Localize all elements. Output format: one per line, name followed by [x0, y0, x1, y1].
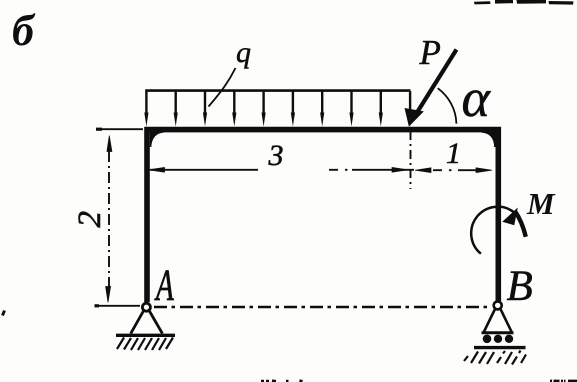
distributed load arrows: heads	[144, 113, 412, 127]
stray marks bottom centre	[261, 381, 303, 382]
dimension 3 line left segment with left arrow	[150, 169, 258, 171]
fillet top-left interior corner	[150, 131, 164, 147]
support A pin circle	[142, 303, 150, 311]
svg-text:α: α	[462, 68, 492, 128]
moment M arrowhead barb	[504, 209, 517, 224]
dimension 1 left arrow	[415, 168, 431, 173]
distributed load q: top line	[145, 89, 410, 92]
dimension 3 right dash-dot segment with right arrow	[329, 169, 414, 171]
support B pin circle	[494, 301, 502, 309]
dimension 2 top arrow	[107, 136, 112, 152]
support A triangle	[131, 310, 163, 334]
dimension 1 right arrow	[476, 168, 492, 173]
support A hatching	[117, 338, 173, 351]
force P arrow	[415, 50, 457, 117]
leader line from q	[209, 68, 236, 107]
moment M arc thick end tail	[515, 211, 526, 237]
support A ground line	[116, 334, 175, 337]
fillet top-right interior corner	[481, 131, 496, 147]
svg-text:б: б	[12, 6, 36, 55]
extension line bottom-left (support level)	[95, 305, 141, 307]
vertical dash-dot line at load end	[410, 131, 412, 189]
support B base line	[482, 331, 514, 334]
dash-dot centre line A to B	[154, 306, 490, 308]
moment M arc	[471, 207, 514, 254]
svg-text:M: M	[526, 186, 556, 221]
distributed load arrows: stems	[146, 91, 410, 115]
support B triangle	[484, 308, 512, 332]
stray mark bottom right	[550, 380, 577, 382]
scan artifact top-right streak	[474, 0, 574, 5]
svg-text:B: B	[507, 263, 533, 310]
frame (beam + two columns)	[147, 130, 498, 302]
svg-text:1: 1	[446, 137, 461, 170]
svg-text:q: q	[236, 36, 251, 69]
angle arc alpha	[438, 88, 457, 123]
support B ground line	[474, 346, 526, 349]
extension line top-left (beam level)	[96, 128, 143, 130]
support B hatching	[464, 351, 526, 365]
svg-text:3: 3	[268, 139, 284, 172]
stray comma mark left edge	[3, 311, 5, 316]
svg-text:A: A	[154, 262, 174, 310]
dimension 2 vertical line	[108, 151, 110, 288]
dimension 2 bottom arrow	[106, 287, 111, 303]
svg-text:P: P	[419, 33, 441, 72]
dimension 1 dash line	[433, 169, 480, 171]
support B rollers	[483, 335, 514, 344]
svg-text:2: 2	[72, 211, 108, 228]
